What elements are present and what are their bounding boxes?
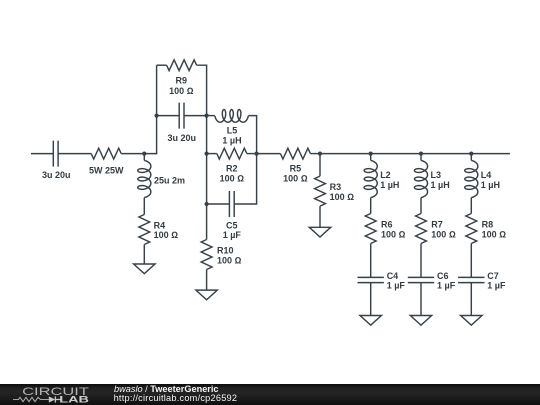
svg-text:1 µF: 1 µF xyxy=(487,280,506,290)
svg-text:R5: R5 xyxy=(290,164,302,174)
svg-text:1 µF: 1 µF xyxy=(223,230,242,240)
svg-text:100 Ω: 100 Ω xyxy=(154,230,179,240)
node F at C5 rail xyxy=(205,202,209,206)
resistor R8 xyxy=(466,214,477,244)
wire L5 right lead xyxy=(248,116,256,154)
svg-text:100 Ω: 100 Ω xyxy=(220,174,245,184)
wire C5 right lead xyxy=(234,154,256,204)
inductor L1 25u 2m xyxy=(138,160,151,197)
footer author/title line xyxy=(114,384,219,394)
wire L4 to R8 xyxy=(470,198,472,214)
wire input lead xyxy=(31,153,53,155)
wire node G to node H xyxy=(320,153,371,155)
resistor R3 xyxy=(315,176,326,206)
capacitor C6 xyxy=(408,277,434,282)
wire R2 left lead xyxy=(207,153,217,155)
wire node A to L1 xyxy=(143,154,145,161)
svg-text:R3: R3 xyxy=(330,182,342,192)
wire C5 left lead xyxy=(207,203,230,205)
ground under C6 xyxy=(410,316,431,326)
resistor R5 xyxy=(280,148,310,159)
node E right of R2 xyxy=(255,152,259,156)
svg-text:L3: L3 xyxy=(431,170,442,180)
capacitor C7 xyxy=(458,277,484,282)
node A junction xyxy=(142,152,146,156)
svg-text:1 µH: 1 µH xyxy=(431,180,450,190)
svg-text:100 Ω: 100 Ω xyxy=(431,229,456,239)
wire L1 to R4 xyxy=(143,198,145,215)
svg-text:R2: R2 xyxy=(226,164,238,174)
wire R2 right lead xyxy=(247,153,257,155)
resistor R9 xyxy=(167,60,197,71)
CircuitLab logo xyxy=(0,380,100,405)
wire node C down to main rail xyxy=(206,116,208,154)
resistor R6 xyxy=(365,214,376,244)
logo resistor squiggle wire xyxy=(13,397,49,401)
svg-text:25u 2m: 25u 2m xyxy=(154,176,185,186)
svg-text:C5: C5 xyxy=(226,220,238,230)
wire R4 to ground xyxy=(143,245,145,265)
svg-text:L5: L5 xyxy=(227,126,238,136)
ground under C7 xyxy=(461,316,482,326)
svg-text:1 µH: 1 µH xyxy=(380,180,399,190)
footer url line xyxy=(114,393,238,403)
svg-text:C6: C6 xyxy=(437,271,449,281)
footer bar xyxy=(0,384,540,405)
inductor L2 xyxy=(364,160,377,197)
wire L3 to R7 xyxy=(420,198,422,214)
svg-text:5W 25W: 5W 25W xyxy=(89,166,124,176)
node at top of L2 branch xyxy=(369,152,373,156)
svg-text:L4: L4 xyxy=(481,170,492,180)
wire L3 top lead xyxy=(420,154,422,161)
wire C2 left lead xyxy=(157,115,180,117)
svg-text:1 µF: 1 µF xyxy=(437,280,456,290)
wire R8 to C7 xyxy=(470,244,472,278)
ground under C4 xyxy=(360,316,381,326)
wire node D down to C5 rail xyxy=(206,154,208,204)
wire node I to node J xyxy=(421,153,471,155)
svg-text:C4: C4 xyxy=(387,271,399,281)
svg-text:100 Ω: 100 Ω xyxy=(330,192,355,202)
svg-text:R4: R4 xyxy=(154,220,166,230)
svg-text:100 Ω: 100 Ω xyxy=(482,229,507,239)
wire R3 to ground xyxy=(319,206,321,227)
wire L5 left lead xyxy=(207,115,215,117)
wire R7 to C6 xyxy=(420,244,422,278)
wire C4 to ground xyxy=(370,283,372,316)
wire R9 left lead xyxy=(157,64,167,66)
svg-text:L2: L2 xyxy=(380,170,391,180)
svg-text:100 Ω: 100 Ω xyxy=(381,229,406,239)
node C right of C2 xyxy=(205,114,209,118)
node G after R5 xyxy=(318,152,322,156)
svg-text:1 µH: 1 µH xyxy=(481,180,500,190)
wire R9 right lead xyxy=(197,65,207,115)
resistor R7 xyxy=(416,214,427,244)
resistor R1 5W 25W xyxy=(91,148,121,159)
wire L2 top lead xyxy=(370,154,372,161)
svg-text:100 Ω: 100 Ω xyxy=(283,174,308,184)
logo diode symbol xyxy=(49,396,55,402)
resistor R4 xyxy=(139,215,150,245)
inductor L5 xyxy=(215,110,248,123)
inductor L3 xyxy=(414,160,427,197)
capacitor C1 3u 20u (input) xyxy=(53,141,58,167)
capacitor C5 xyxy=(229,191,234,217)
wire node A to riser xyxy=(144,116,156,154)
svg-text:R7: R7 xyxy=(431,219,443,229)
svg-text:C7: C7 xyxy=(487,271,499,281)
svg-text:LAB: LAB xyxy=(59,394,89,405)
capacitor C2 3u 20u (parallel with R9) xyxy=(179,103,184,129)
wire L2 to R6 xyxy=(370,198,372,214)
wire L4 top lead xyxy=(470,154,472,161)
wire C1 to R1 xyxy=(58,153,91,155)
svg-text:100 Ω: 100 Ω xyxy=(217,255,242,265)
svg-text:3u 20u: 3u 20u xyxy=(168,133,197,143)
svg-text:R10: R10 xyxy=(217,245,234,255)
capacitor C4 xyxy=(358,277,384,282)
ground under R4 xyxy=(134,264,155,274)
resistor R2 xyxy=(217,148,247,159)
wire C6 to ground xyxy=(420,283,422,316)
svg-text:R8: R8 xyxy=(482,219,494,229)
node B left of C2 xyxy=(155,114,159,118)
node at top of L3 branch xyxy=(419,152,423,156)
wire R6 to C4 xyxy=(370,244,372,278)
wire node G to R3 xyxy=(319,154,321,177)
wire R5 left lead xyxy=(257,153,281,155)
svg-text:100 Ω: 100 Ω xyxy=(169,86,194,96)
wire node J to rail end xyxy=(471,153,510,155)
node at top of L4 branch xyxy=(469,152,473,156)
wire R1 to node A xyxy=(121,153,144,155)
wire left riser to R9 rail xyxy=(156,65,158,115)
wire node F to R10 xyxy=(206,204,208,240)
wire C2 right lead xyxy=(184,115,207,117)
resistor R10 xyxy=(201,240,212,270)
wire C7 to ground xyxy=(470,283,472,316)
inductor L4 xyxy=(465,160,478,197)
ground under R3 xyxy=(309,227,330,237)
svg-text:R6: R6 xyxy=(381,219,393,229)
svg-text:1 µH: 1 µH xyxy=(222,136,241,146)
svg-text:3u 20u: 3u 20u xyxy=(42,170,71,180)
node D on main rail xyxy=(205,152,209,156)
wire R5 right lead xyxy=(310,153,320,155)
ground under R10 xyxy=(196,290,217,300)
wire R10 to ground xyxy=(206,270,208,291)
svg-text:R9: R9 xyxy=(176,76,188,86)
wire node H to node I xyxy=(371,153,421,155)
svg-text:1 µF: 1 µF xyxy=(387,280,406,290)
